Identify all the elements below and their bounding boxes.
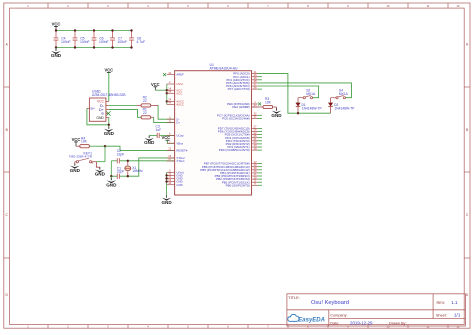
svg-text:A: A xyxy=(6,43,9,47)
svg-text:6: 6 xyxy=(227,4,229,8)
svg-text:22: 22 xyxy=(143,99,147,103)
svg-text:TITLE:: TITLE: xyxy=(288,295,300,300)
svg-text:VCC: VCC xyxy=(151,82,160,87)
resistor R3 xyxy=(252,97,277,110)
net flag VCC (cap bank) xyxy=(52,22,61,31)
svg-text:10: 10 xyxy=(387,4,390,8)
svg-text:18: 18 xyxy=(254,146,257,150)
wire VCC to IC power pins xyxy=(155,89,167,91)
capacitor C3 xyxy=(156,125,162,138)
wire USB D+ to R1 xyxy=(109,109,141,117)
svg-text:VCC: VCC xyxy=(176,91,182,95)
resistor R2 xyxy=(137,96,159,107)
svg-text:2: 2 xyxy=(169,80,171,84)
svg-text:3: 3 xyxy=(107,4,109,8)
junction dots IC power xyxy=(166,89,168,103)
svg-text:16MHz: 16MHz xyxy=(132,169,143,173)
net flag VCC (VBus) xyxy=(161,135,170,140)
ground (U1) xyxy=(161,195,172,205)
ground (KEY1 right) xyxy=(95,162,106,177)
wire VCC to USB1 xyxy=(108,72,110,101)
wire IC power vertical xyxy=(166,84,168,105)
no-connect cross (USB ID pin) xyxy=(106,111,110,115)
svg-text:2019-12-29: 2019-12-29 xyxy=(350,320,373,325)
wire PF0 to diode bus xyxy=(258,74,331,114)
capacitor C2 xyxy=(117,149,125,163)
svg-text:12: 12 xyxy=(457,4,460,8)
capacitor C1 xyxy=(117,166,125,178)
svg-text:VCC: VCC xyxy=(161,135,170,140)
svg-text:Osu! Keyboard: Osu! Keyboard xyxy=(311,300,349,306)
wire USB D- to R2 xyxy=(109,104,137,106)
svg-text:MX1A: MX1A xyxy=(339,92,349,96)
push button KEY1 xyxy=(69,151,97,163)
capacitor C5 xyxy=(73,31,90,48)
svg-text:XTAL1: XTAL1 xyxy=(176,159,185,163)
svg-text:PC6 (OC3A/OC4A#): PC6 (OC3A/OC4A#) xyxy=(222,117,250,121)
svg-text:44: 44 xyxy=(168,101,171,105)
net flag VCC (reset pullup) xyxy=(72,137,81,146)
switch S2 xyxy=(298,89,316,99)
wire R4 to IC RESET# xyxy=(105,146,175,150)
wire R2 to IC D- xyxy=(158,105,175,119)
svg-text:D: D xyxy=(6,293,9,297)
diode D2 xyxy=(328,98,355,114)
svg-text:C: C xyxy=(6,213,9,217)
svg-text:8: 8 xyxy=(307,4,309,8)
net flag VCC (USB) xyxy=(104,67,113,72)
ground (C3) xyxy=(144,136,155,146)
svg-text:GND: GND xyxy=(106,182,117,187)
wire USB shield to ground xyxy=(87,108,109,125)
svg-text:10K: 10K xyxy=(265,101,272,105)
svg-text:AVCC: AVCC xyxy=(176,103,184,107)
wire PF6 to S2 xyxy=(258,86,319,98)
svg-text:100nF: 100nF xyxy=(61,40,71,44)
ground (USB) xyxy=(104,127,115,137)
svg-text:GND: GND xyxy=(161,200,172,205)
svg-text:Company:: Company: xyxy=(330,314,347,318)
wire reset to KEY1 xyxy=(104,146,106,162)
ground (crystal) xyxy=(106,176,117,187)
svg-text:GND: GND xyxy=(70,168,81,173)
crystal X1 xyxy=(125,161,143,176)
title block xyxy=(287,294,466,326)
svg-text:100nF: 100nF xyxy=(118,40,128,44)
net flag VCC (IC power) xyxy=(151,82,160,90)
capacitor C4 xyxy=(54,31,71,48)
svg-text:10K: 10K xyxy=(81,140,88,144)
junction dot diode bus xyxy=(297,112,299,114)
wire USB GND down xyxy=(108,117,110,128)
svg-text:GND: GND xyxy=(95,172,106,177)
svg-text:4: 4 xyxy=(147,4,149,8)
svg-text:REV:: REV: xyxy=(437,301,446,305)
svg-text:RESET#: RESET# xyxy=(176,149,187,153)
wire KEY1 right to reset net xyxy=(96,161,105,163)
svg-text:31: 31 xyxy=(254,115,257,119)
ground (cap bank) xyxy=(51,48,62,59)
svg-text:7: 7 xyxy=(267,4,269,8)
resistor R1 xyxy=(141,108,154,119)
svg-text:GND: GND xyxy=(104,131,115,136)
svg-text:TMD-325R-4-T/R: TMD-325R-4-T/R xyxy=(69,155,93,159)
svg-text:GND: GND xyxy=(144,140,155,145)
wire IC UCap xyxy=(149,135,174,137)
svg-text:1N4148W-TP: 1N4148W-TP xyxy=(334,107,355,111)
resistor R4 xyxy=(76,136,105,147)
EasyEDA logo xyxy=(288,314,325,323)
svg-text:B: B xyxy=(6,128,8,132)
svg-text:36: 36 xyxy=(254,85,257,89)
svg-text:GND: GND xyxy=(96,116,104,120)
svg-text:U254-051T-4BH83-S2B: U254-051T-4BH83-S2B xyxy=(92,93,126,97)
junction dots cap rails xyxy=(55,29,133,48)
svg-text:VCC: VCC xyxy=(52,22,61,27)
switch S4 xyxy=(331,89,349,99)
wire VBus to VCC xyxy=(167,140,174,143)
svg-text:PB0 (SS/PCINT0): PB0 (SS/PCINT0) xyxy=(226,183,250,187)
svg-text:6: 6 xyxy=(169,132,171,136)
svg-text:100nF: 100nF xyxy=(80,40,90,44)
wire XTAL2 net xyxy=(111,158,174,176)
svg-text:PE2 (HWB#): PE2 (HWB#) xyxy=(232,105,249,109)
wire R1 to IC D+ xyxy=(154,117,175,122)
capacitor C8 xyxy=(129,31,145,48)
svg-text:1: 1 xyxy=(27,4,29,8)
svg-text:22pF: 22pF xyxy=(117,170,125,174)
svg-text:22pF: 22pF xyxy=(117,152,125,156)
wire PF5 to S4 xyxy=(258,83,352,98)
svg-text:2: 2 xyxy=(67,4,69,8)
svg-text:PD0 (OC0B/SCL/INT0): PD0 (OC0B/SCL/INT0) xyxy=(219,148,250,152)
wire crystal left rail xyxy=(110,161,112,176)
svg-text:22: 22 xyxy=(143,111,147,115)
svg-text:VCC: VCC xyxy=(72,137,81,142)
svg-text:42: 42 xyxy=(168,71,171,75)
op-amp U1 ATMEGA32U4-AU body xyxy=(175,63,252,195)
svg-text:PF7 (ADC7/TDI): PF7 (ADC7/TDI) xyxy=(228,87,250,91)
svg-text:1N4148W-TP: 1N4148W-TP xyxy=(302,107,323,111)
junction dot reset xyxy=(104,145,106,147)
svg-text:4.7uF: 4.7uF xyxy=(137,40,146,44)
svg-text:B: B xyxy=(466,128,468,132)
svg-text:SH: SH xyxy=(90,107,94,111)
svg-text:VCC: VCC xyxy=(104,67,113,72)
svg-text:Drawn By:: Drawn By: xyxy=(389,321,407,325)
svg-text:ATMEGA32U4-AU: ATMEGA32U4-AU xyxy=(210,67,239,71)
svg-text:13: 13 xyxy=(168,147,171,151)
ground (R3) xyxy=(271,108,282,118)
svg-text:AREF: AREF xyxy=(176,73,184,77)
svg-text:GND: GND xyxy=(176,183,182,187)
ground (KEY1 left) xyxy=(70,162,81,173)
svg-text:1/1: 1/1 xyxy=(454,313,461,318)
svg-text:MX1A: MX1A xyxy=(306,92,316,96)
svg-text:34: 34 xyxy=(168,90,171,94)
svg-text:GND: GND xyxy=(51,53,62,58)
svg-text:5: 5 xyxy=(187,4,189,8)
wire bottom rail xyxy=(56,47,132,49)
no-connect cross (AREF) xyxy=(163,73,166,76)
svg-text:9: 9 xyxy=(347,4,349,8)
capacitor C7 xyxy=(110,31,127,48)
junction dots crystal xyxy=(110,160,129,178)
svg-text:D+: D+ xyxy=(176,121,180,125)
svg-text:43: 43 xyxy=(168,181,171,185)
svg-text:Date:: Date: xyxy=(330,321,339,325)
U1 left pins xyxy=(167,71,188,187)
diode D1 xyxy=(296,98,323,114)
svg-text:100nF: 100nF xyxy=(99,40,109,44)
svg-text:A: A xyxy=(466,43,469,47)
svg-text:GND: GND xyxy=(271,113,282,118)
wire XTAL1 net xyxy=(111,160,174,162)
junction dot USB ground xyxy=(108,124,110,126)
svg-text:17: 17 xyxy=(168,157,171,161)
svg-text:UVcc: UVcc xyxy=(176,82,183,86)
capacitor C6 xyxy=(92,31,109,48)
svg-text:UCap: UCap xyxy=(176,134,184,138)
wire IC ground pins xyxy=(165,172,167,197)
svg-text:C: C xyxy=(466,213,469,217)
USB connector USB1 xyxy=(87,90,126,122)
svg-text:11: 11 xyxy=(427,4,430,8)
svg-text:Sheet:: Sheet: xyxy=(436,314,447,318)
svg-text:1uF: 1uF xyxy=(156,128,162,132)
svg-text:VBus: VBus xyxy=(176,141,183,145)
svg-text:EasyEDA: EasyEDA xyxy=(298,318,325,324)
svg-text:1.1: 1.1 xyxy=(451,300,458,305)
wire top rail xyxy=(56,30,132,32)
no-connect cross (PE6) xyxy=(258,102,261,105)
U1 right pins xyxy=(200,70,262,188)
svg-text:D: D xyxy=(466,293,469,297)
